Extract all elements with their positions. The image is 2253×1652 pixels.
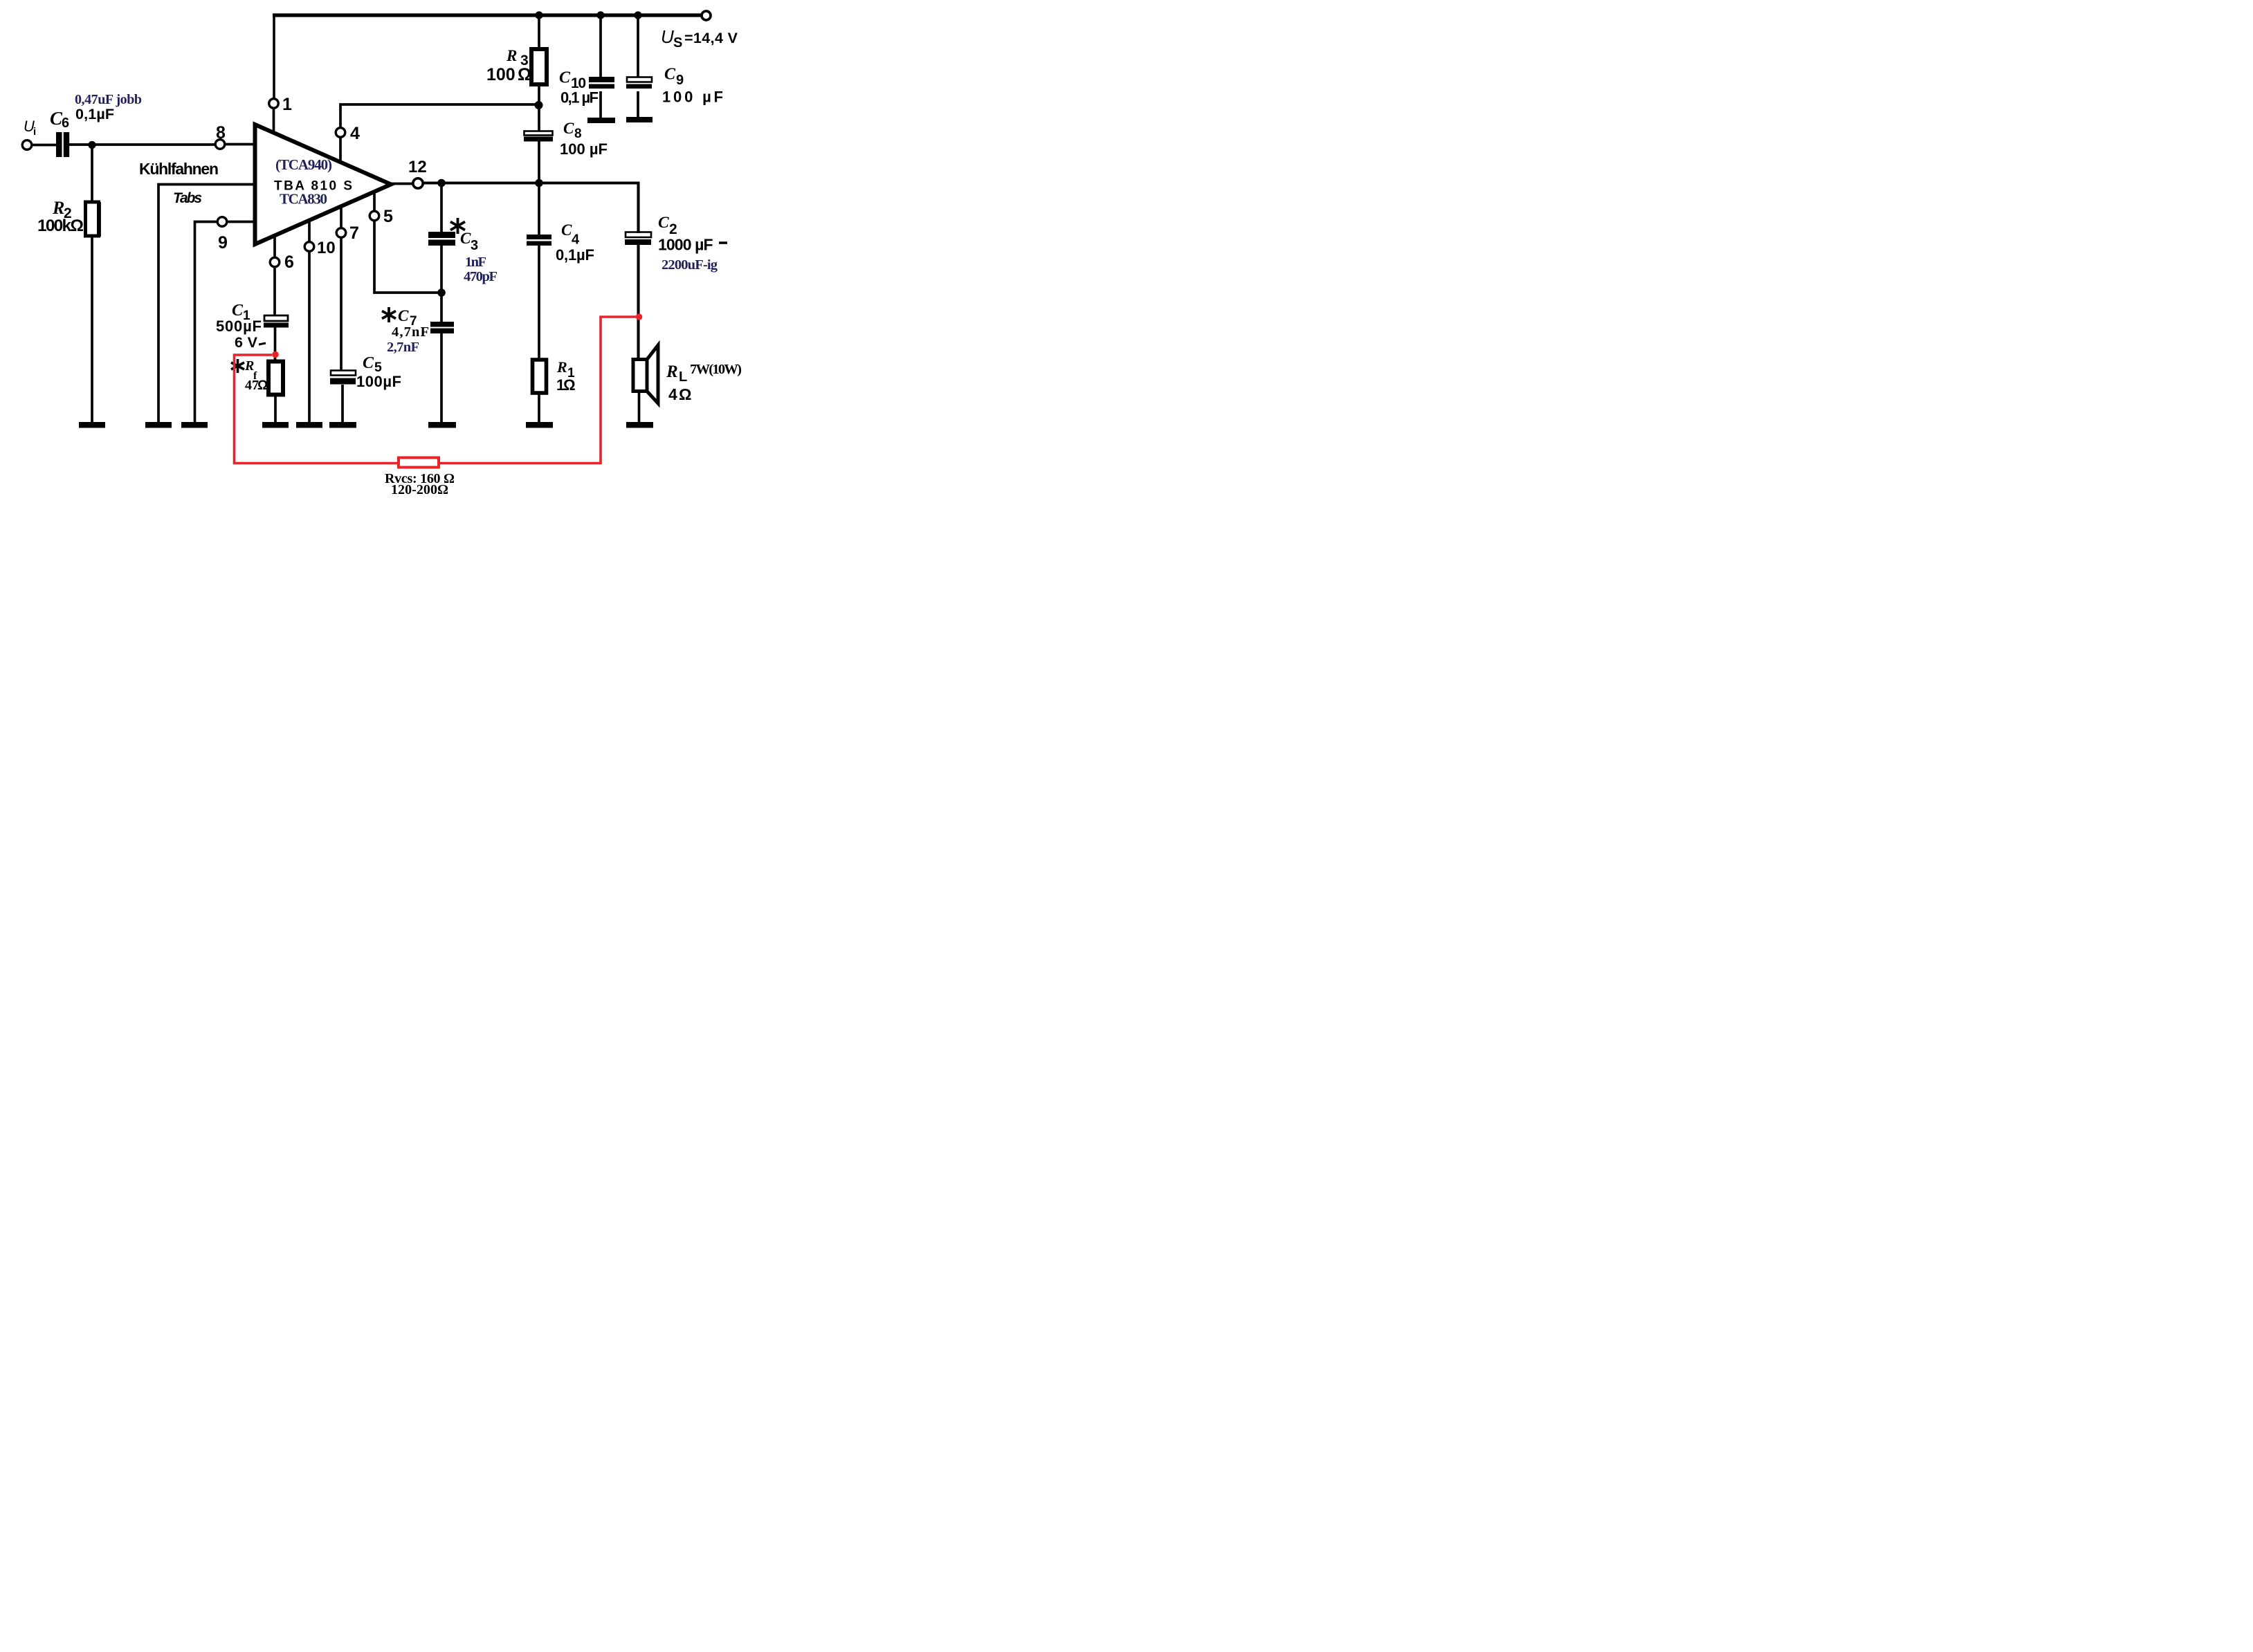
svg-text:C: C (559, 69, 571, 87)
svg-text:0,1 µF: 0,1 µF (560, 89, 599, 107)
ground C10 (587, 118, 615, 123)
wire pin12 output line (423, 181, 639, 184)
node C3/C7/pin5 (437, 288, 446, 297)
svg-text:47: 47 (245, 378, 259, 393)
capacitor C5 (331, 371, 356, 376)
svg-text:C: C (664, 66, 676, 84)
svg-text:470pF: 470pF (464, 269, 498, 284)
svg-text:=14,4 V: =14,4 V (684, 30, 738, 46)
ground pin10 (296, 422, 322, 428)
svg-text:R: R (666, 362, 678, 381)
pin 12 (413, 178, 423, 188)
wire C9 drop (637, 15, 639, 79)
capacitor C10 (589, 77, 614, 82)
asterisk C7 (382, 307, 396, 322)
resistor R3 (531, 49, 547, 84)
ground Rf (262, 422, 289, 428)
wire C5 to ground (341, 385, 344, 423)
svg-text:0,47uF jobb: 0,47uF jobb (75, 92, 142, 107)
ground R2 (79, 422, 105, 428)
svg-text:6 V: 6 V (235, 334, 258, 351)
wire R2 drop (91, 145, 93, 203)
svg-text:R: R (556, 358, 567, 376)
svg-text:Ω: Ω (563, 376, 576, 394)
svg-text:0,1µF: 0,1µF (556, 246, 594, 264)
input terminal Ui (22, 140, 32, 150)
ground C5 (329, 422, 356, 428)
wire R1 to ground (538, 393, 540, 423)
svg-text:(TCA940): (TCA940) (275, 156, 332, 173)
svg-text:0,1µF: 0,1µF (75, 106, 114, 122)
wire node to C7 (440, 293, 443, 322)
wire C4 to R1 (538, 246, 540, 360)
svg-text:6: 6 (284, 253, 294, 272)
wire C8 down through pin12 node to C4 (538, 141, 540, 235)
wire C6 to pin 8 (69, 143, 216, 146)
svg-text:12: 12 (408, 158, 427, 176)
svg-text:1nF: 1nF (465, 255, 486, 270)
node C6/R2 junction (88, 141, 95, 149)
wire apex to pin12 (392, 183, 413, 185)
node rail-R3 (535, 11, 542, 19)
ground tab (145, 422, 172, 428)
capacitor C7 (430, 322, 454, 327)
node R3/C8/pin4 junction (535, 101, 543, 109)
asterisk C3 (450, 218, 465, 234)
ground pin9 (181, 422, 208, 428)
wire pin10 stem (308, 221, 311, 242)
resistor R1 (533, 360, 547, 393)
wire input to C6 (32, 144, 57, 147)
pin 9 (217, 217, 227, 227)
capacitor C1 (264, 315, 288, 321)
wire R2 to ground (91, 236, 93, 423)
svg-text:C: C (398, 307, 409, 324)
node red feedback tap (272, 351, 279, 358)
svg-text:S: S (673, 35, 682, 51)
node rail-C9 (634, 11, 641, 19)
svg-text:10: 10 (317, 239, 336, 257)
pin 8 (215, 140, 225, 149)
wire C1 to Rf (274, 327, 277, 362)
wire pin6 to C1 (273, 266, 276, 316)
capacitor C6 (56, 132, 62, 157)
pin 6 (270, 257, 280, 267)
wire R3 to junction (538, 84, 540, 132)
pin 4 (336, 128, 345, 138)
svg-text:9: 9 (218, 233, 228, 253)
wire pin4 feedback line (340, 104, 539, 128)
svg-text:C: C (658, 214, 669, 232)
node rail-C10 (596, 11, 604, 19)
svg-text:U: U (661, 26, 674, 47)
svg-text:Tabs: Tabs (173, 190, 202, 206)
capacitor C4 (527, 235, 551, 239)
svg-text:4: 4 (350, 124, 360, 143)
svg-text:Ω: Ω (679, 385, 691, 403)
wire Rf to ground (274, 394, 277, 423)
svg-text:4: 4 (572, 232, 580, 248)
wire R3 drop from rail (538, 15, 540, 51)
wire C3 to pin5 node (440, 246, 443, 293)
ground RL (626, 422, 653, 428)
resistor Rf (268, 362, 283, 395)
node C8/pin12 line (535, 179, 543, 187)
node pin12/C3 (437, 179, 446, 187)
wire C10 drop (599, 15, 602, 79)
svg-text:7: 7 (349, 223, 359, 243)
svg-text:Kühlfahnen: Kühlfahnen (139, 160, 219, 178)
capacitor C2 (626, 232, 651, 238)
ground C9 (626, 117, 653, 122)
svg-text:R: R (506, 47, 517, 64)
svg-text:Ω: Ω (518, 65, 531, 84)
speaker RL (633, 360, 647, 392)
svg-text:C: C (561, 221, 572, 239)
svg-text:Ω: Ω (257, 378, 268, 393)
node red to speaker (636, 313, 643, 320)
wire left rail drop to pin 1 (273, 14, 275, 99)
wire pin8 to triangle (225, 143, 255, 146)
svg-text:100µF: 100µF (356, 373, 401, 390)
pin 7 (336, 228, 346, 238)
svg-text:100: 100 (486, 65, 516, 84)
wire C10 to ground (599, 91, 602, 119)
svg-text:8: 8 (216, 123, 226, 143)
svg-text:1: 1 (282, 95, 292, 114)
wire pin12 line corner to C2 (637, 182, 639, 234)
pin 5 (370, 211, 379, 221)
wire pin1 stem (273, 108, 275, 134)
resistor R2 (86, 202, 99, 236)
svg-text:100 µF: 100 µF (560, 140, 608, 158)
wire speaker to ground (638, 391, 641, 423)
svg-text:L: L (679, 369, 687, 385)
svg-text:R: R (52, 198, 64, 218)
wire C3 drop (440, 183, 443, 233)
pin 10 (304, 242, 314, 252)
wire pin7 stem (340, 205, 343, 228)
resistor Rvcs (399, 458, 439, 468)
ground R1 (526, 422, 553, 428)
wire pin10 to ground (308, 251, 311, 423)
capacitor C9 (627, 77, 652, 82)
capacitor C8 (525, 131, 553, 136)
svg-text:C: C (363, 354, 374, 372)
svg-text:2200uF-ig: 2200uF-ig (662, 257, 718, 273)
wire tab connection (158, 185, 255, 423)
svg-text:100kΩ: 100kΩ (37, 217, 84, 235)
wire pin5 elbow to C3 (374, 221, 441, 293)
pin 1 (269, 99, 279, 109)
wire red feedback right (439, 317, 636, 464)
wire C9 to ground (637, 91, 639, 118)
wire red feedback left (235, 355, 399, 464)
wire top supply rail (273, 13, 702, 17)
svg-text:8: 8 (574, 127, 582, 141)
svg-text:4: 4 (668, 385, 677, 403)
svg-text:9: 9 (676, 73, 684, 88)
svg-text:TCA830: TCA830 (280, 191, 327, 208)
wire pin9 elbow (195, 222, 218, 423)
svg-text:7W(10W): 7W(10W) (690, 362, 742, 377)
svg-text:500µF: 500µF (216, 318, 262, 335)
ground C7 (428, 422, 456, 428)
wire C7 to ground (440, 333, 443, 423)
svg-text:4,7nF: 4,7nF (392, 324, 429, 340)
svg-text:C: C (563, 120, 574, 137)
svg-text:i: i (33, 126, 36, 138)
wire pin6 stem (273, 236, 276, 258)
wire pin4 stem (339, 137, 342, 163)
capacitor C3 (428, 232, 455, 238)
wire pin5 stem (373, 193, 376, 212)
wire C2 to speaker (637, 245, 639, 360)
svg-text:1000 µF: 1000 µF (658, 236, 713, 254)
svg-text:6: 6 (62, 116, 69, 131)
svg-text:C: C (460, 230, 471, 247)
wire pin9 to triangle (227, 221, 255, 223)
asterisk Rf (231, 359, 244, 373)
svg-text:120-200Ω: 120-200Ω (391, 482, 448, 497)
svg-text:3: 3 (471, 238, 478, 253)
wire pin7 to C5 (340, 237, 343, 371)
svg-text:2,7nF: 2,7nF (387, 340, 419, 355)
terminal Us supply (702, 11, 711, 20)
op-amp U1 TBA810S triangle (255, 125, 392, 244)
svg-text:5: 5 (383, 207, 393, 226)
